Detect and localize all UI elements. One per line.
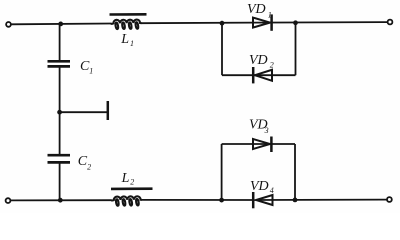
middle tap end bar xyxy=(107,101,110,120)
wire VD2 branch horizontal xyxy=(222,74,296,76)
node VD pair bottom left xyxy=(219,198,224,203)
terminal bottom-left xyxy=(6,198,11,203)
terminal top-left xyxy=(6,22,11,27)
node bottom-left junction xyxy=(58,198,63,203)
svg-text:VD: VD xyxy=(247,2,266,17)
wire top rail middle segment xyxy=(141,22,253,25)
svg-text:1: 1 xyxy=(89,67,93,76)
inductor L2 xyxy=(111,189,153,206)
node top-left junction xyxy=(58,22,63,27)
svg-text:2: 2 xyxy=(87,163,91,172)
wire VD3 branch left vertical xyxy=(221,144,223,200)
capacitor C1 xyxy=(48,61,71,66)
svg-text:1: 1 xyxy=(130,39,134,48)
diode VD3 xyxy=(253,137,271,153)
wire left column lower xyxy=(59,162,61,200)
wire bottom rail middle segment xyxy=(142,199,257,201)
inductor L1 xyxy=(110,14,147,29)
svg-text:2: 2 xyxy=(130,177,134,186)
label VD2 xyxy=(249,53,274,70)
terminal bottom-right xyxy=(387,197,392,202)
svg-text:3: 3 xyxy=(264,126,269,135)
svg-text:VD: VD xyxy=(250,179,269,194)
wire VD2 branch left vertical xyxy=(221,23,223,75)
label VD1 xyxy=(247,2,272,20)
node VD pair bottom right xyxy=(293,198,298,203)
wire bottom rail left segment xyxy=(11,199,112,201)
wire top rail right segment xyxy=(253,21,388,24)
wire bottom rail right segment xyxy=(256,199,387,201)
diode VD1 xyxy=(253,14,272,30)
label VD4 xyxy=(250,179,274,195)
diode VD4 xyxy=(253,192,272,208)
diode VD2 xyxy=(253,67,272,83)
label VD3 xyxy=(249,117,269,135)
label L2 xyxy=(121,171,135,186)
wire top rail left segment xyxy=(11,23,111,26)
label C2 xyxy=(78,154,91,171)
svg-text:L: L xyxy=(121,171,130,186)
wire VD2 branch right vertical xyxy=(295,23,297,75)
svg-text:L: L xyxy=(120,32,129,47)
label L1 xyxy=(120,32,134,48)
capacitor C2 xyxy=(48,155,71,162)
node VD pair top right xyxy=(293,20,298,25)
wire VD3 branch right vertical xyxy=(294,144,296,200)
node VD pair top left xyxy=(220,21,225,26)
svg-text:2: 2 xyxy=(270,61,274,70)
node middle tap xyxy=(57,110,62,115)
wire left column upper xyxy=(59,24,61,61)
wire middle tap stub xyxy=(60,111,108,113)
wire VD3 branch horizontal xyxy=(222,143,295,145)
wire left column middle xyxy=(59,66,61,155)
svg-text:1: 1 xyxy=(268,11,272,20)
svg-text:VD: VD xyxy=(249,53,268,68)
terminal top-right xyxy=(388,20,393,25)
label C1 xyxy=(80,59,93,75)
svg-text:4: 4 xyxy=(270,186,274,195)
